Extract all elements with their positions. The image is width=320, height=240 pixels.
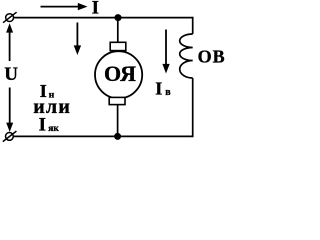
- arrow I (line current direction): [41, 3, 88, 10]
- wire from node A down to top brush: [117, 18, 119, 43]
- svg-text:ОЯ: ОЯ: [104, 61, 136, 86]
- brush bottom of armature: [109, 97, 125, 104]
- svg-text:I: I: [155, 79, 162, 99]
- wire bottom horizontal: [13, 135, 192, 137]
- wire right branch top (to field winding): [192, 17, 194, 34]
- wire right branch bottom: [192, 78, 194, 137]
- arrow field current direction: [162, 30, 169, 74]
- terminal X2 (bottom left input): [3, 131, 17, 142]
- arrow U lower (down arrowhead): [6, 88, 13, 133]
- svg-text:U: U: [4, 64, 18, 85]
- wire top horizontal: [14, 17, 193, 19]
- svg-text:в: в: [165, 87, 171, 98]
- arrow armature current direction: [74, 23, 81, 56]
- svg-text:I: I: [39, 114, 46, 135]
- svg-text:ОВ: ОВ: [198, 47, 226, 67]
- label In (rated current): [40, 81, 55, 101]
- arrow U upper (up arrowhead): [6, 23, 13, 61]
- armature winding OYA (motor circle): [95, 51, 142, 98]
- svg-text:як: як: [48, 124, 59, 134]
- terminal X1 (top left input): [3, 12, 17, 23]
- label Iv (field current): [155, 79, 171, 99]
- wire from bottom brush to node B: [117, 105, 119, 137]
- label Iyak (armature current): [39, 114, 60, 135]
- field winding OV (inductor coil): [180, 34, 193, 78]
- svg-text:I: I: [92, 0, 99, 19]
- node A (top junction dot): [115, 14, 122, 21]
- node B (bottom junction dot): [114, 133, 121, 140]
- brush top of armature: [110, 42, 126, 50]
